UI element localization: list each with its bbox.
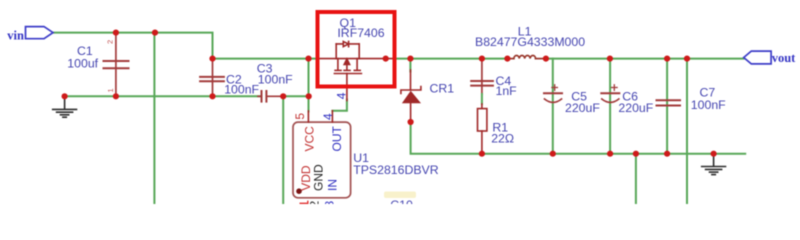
- svg-text:100uf: 100uf: [67, 57, 98, 71]
- port vout: [744, 51, 796, 65]
- pin 4 stub OUT: [331, 111, 333, 122]
- node C6 top: [607, 56, 613, 62]
- svg-text:220uF: 220uF: [618, 101, 653, 115]
- svg-text:100nF: 100nF: [258, 72, 293, 86]
- wire ground rail left: [65, 95, 260, 97]
- node vcc corner: [306, 93, 312, 99]
- svg-text:VCC: VCC: [302, 126, 316, 152]
- svg-text:B82477G4333M000: B82477G4333M000: [475, 35, 585, 49]
- wire switch-node rail right of Q1: [394, 58, 508, 60]
- svg-text:OUT: OUT: [330, 126, 344, 152]
- svg-text:100nF: 100nF: [691, 98, 726, 112]
- svg-text:CR1: CR1: [430, 82, 455, 96]
- svg-text:IN: IN: [325, 179, 339, 191]
- ground left: [53, 96, 77, 117]
- node L1 pin1: [504, 56, 510, 62]
- node C1 bottom: [113, 93, 119, 99]
- inductor L1: [507, 55, 546, 58]
- svg-text:5: 5: [293, 113, 307, 120]
- wire C4 to R1: [481, 94, 483, 104]
- ground right: [702, 154, 726, 175]
- svg-text:4: 4: [321, 113, 335, 120]
- pin 5 stub VCC: [307, 111, 309, 122]
- node R1 bottom: [479, 151, 485, 157]
- svg-text:3: 3: [322, 201, 336, 205]
- node C5 bottom: [550, 151, 556, 157]
- svg-text:220uF: 220uF: [565, 101, 600, 115]
- node vin/C2: [209, 56, 215, 62]
- svg-text:100nF: 100nF: [224, 83, 259, 97]
- svg-text:IRF7406: IRF7406: [337, 26, 384, 40]
- wire vdd drop x283: [282, 96, 284, 204]
- wire CR1 top connect: [409, 59, 411, 72]
- node CR1 top: [407, 56, 413, 62]
- capacitor C2: [200, 61, 224, 95]
- svg-text:4: 4: [334, 92, 348, 99]
- svg-text:2: 2: [106, 40, 115, 44]
- U1 polarity dot: [296, 188, 302, 194]
- port vin: [7, 27, 53, 43]
- diode CR1 (Schottky): [401, 70, 421, 120]
- wire vertical feed x154 down: [153, 33, 155, 204]
- faint highlight smudge above C10: [384, 192, 416, 199]
- node gnd left: [62, 93, 68, 99]
- node C7 bottom: [664, 151, 670, 157]
- node C6 bottom: [607, 151, 613, 157]
- wire gate jog to U1 pin4: [332, 100, 347, 111]
- node vout drop: [684, 56, 690, 62]
- wire vin top rail: [53, 33, 318, 59]
- resistor R1: [478, 104, 487, 152]
- wire vcc drop x308: [308, 59, 310, 112]
- node C2 bottom: [209, 93, 215, 99]
- node C4 top: [479, 56, 485, 62]
- transistor Q1 (PMOS with body diode): [319, 41, 394, 100]
- capacitor C5 (polarized): [544, 85, 562, 103]
- svg-text:C10: C10: [390, 198, 413, 204]
- svg-text:1: 1: [106, 88, 115, 92]
- node C3 right: [280, 93, 286, 99]
- capacitor C1: [104, 35, 129, 95]
- svg-text:2: 2: [307, 201, 321, 205]
- node L1 pin2: [543, 56, 549, 62]
- wire CR1 to bottom rail: [411, 122, 746, 154]
- wire C7 branch: [666, 59, 668, 154]
- capacitor C3: [258, 91, 283, 102]
- svg-text:GND: GND: [312, 164, 326, 191]
- highlight box around Q1: [318, 12, 395, 87]
- capacitor C4: [471, 61, 493, 95]
- wire output sense drop x687: [686, 59, 688, 204]
- wire C6 branch: [609, 59, 611, 154]
- node vin/vcc drop: [305, 56, 311, 62]
- node vin/C1: [113, 29, 119, 35]
- svg-text:22Ω: 22Ω: [491, 132, 514, 146]
- svg-text:TPS2816DBVR: TPS2816DBVR: [353, 163, 439, 177]
- node Q1 source: [383, 56, 389, 62]
- node drop x636: [633, 151, 639, 157]
- node gnd right: [711, 151, 717, 157]
- svg-text:vin: vin: [7, 28, 24, 42]
- op-amp U1 gate driver box: [293, 111, 351, 208]
- wire C3 to vin node: [283, 95, 309, 97]
- node vin/x154: [152, 29, 158, 35]
- wire output rail L1 to vout: [546, 58, 744, 60]
- node CR1 bottom: [408, 119, 414, 125]
- node C7 top: [664, 56, 670, 62]
- wire C5 branch: [552, 59, 554, 154]
- svg-text:vout: vout: [772, 51, 796, 65]
- wire bottom drop x636: [635, 154, 637, 204]
- svg-text:1nF: 1nF: [496, 84, 518, 98]
- capacitor C7: [657, 100, 681, 105]
- capacitor C6 (polarized): [601, 85, 619, 103]
